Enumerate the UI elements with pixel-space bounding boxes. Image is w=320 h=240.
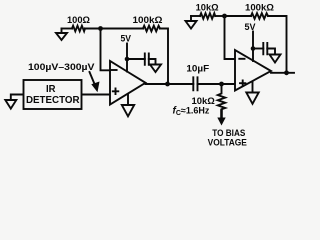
ground G4 (left of stage-2 10kΩ) (186, 16, 197, 29)
IR detector block (24, 80, 82, 109)
node (U2 output / feedback junction) (284, 70, 289, 75)
svg-text:DETECTOR: DETECTOR (26, 95, 80, 106)
ground (C1 decoupling) (150, 65, 161, 73)
op-amp U2 (235, 50, 271, 91)
node (high-pass junction) (219, 82, 224, 87)
svg-text:VOLTAGE: VOLTAGE (208, 138, 247, 148)
resistor 100Ω (stage 1 input) (72, 26, 85, 32)
svg-text:10kΩ: 10kΩ (192, 96, 215, 106)
capacitor 10µF (coupling) (193, 77, 197, 90)
wire (IR detector output to U1 + input) (82, 94, 110, 96)
svg-text:100Ω: 100Ω (67, 15, 90, 25)
resistor 10kΩ (high-pass, vertical) (218, 84, 225, 111)
svg-text:100kΩ: 100kΩ (245, 2, 274, 12)
wire (G1 to resistor 100Ω) (62, 28, 73, 30)
svg-text:10µF: 10µF (186, 63, 209, 73)
svg-text:100kΩ: 100kΩ (133, 15, 163, 25)
ground (C2 decoupling) (270, 55, 281, 63)
wire (G4 to 10kΩ) (191, 15, 200, 17)
wire (10kΩ to node B) (215, 15, 224, 17)
arrow to bias voltage (217, 111, 225, 126)
wire (junction to decoupling cap C1) (127, 58, 145, 60)
wire (C2 to ground) (267, 49, 275, 55)
node (5V decoupling junction U1) (125, 57, 130, 62)
svg-text:10kΩ: 10kΩ (196, 2, 219, 12)
wire (node B to 100kΩ) (225, 15, 252, 17)
label TO BIAS VOLTAGE (208, 128, 247, 148)
svg-text:fC≈1.6Hz: fC≈1.6Hz (173, 106, 210, 118)
svg-text:TO BIAS: TO BIAS (212, 128, 245, 138)
wire (100kΩ to feedback corner, down to U2 output node) (268, 16, 287, 73)
wire (node A down to inverting input of U1) (101, 29, 110, 71)
wire (100Ω to node A) (85, 28, 101, 30)
svg-text:IR: IR (46, 84, 56, 95)
svg-text:5V: 5V (245, 22, 256, 32)
wire (5V to U1 V+ pin) (126, 44, 128, 72)
wire (node B down to inverting input of U2) (225, 16, 235, 59)
capacitor C1 (decoupling, U1) (145, 54, 149, 65)
node B (stage 2 summing junction) (222, 14, 227, 19)
resistor 100kΩ (stage 1 feedback) (143, 26, 160, 32)
wire (100kΩ to feedback corner, down to output node) (160, 29, 168, 85)
resistor 10kΩ (stage 2 input) (200, 13, 215, 19)
wire (10µF to U2 + input) (198, 83, 235, 85)
resistor 100kΩ (stage 2 feedback) (251, 13, 268, 19)
wire (node A to 100kΩ) (101, 28, 144, 30)
node A (summing junction, top-left) (98, 26, 103, 31)
node (U1 output / feedback junction) (165, 82, 170, 87)
wire (U1 output) (146, 83, 194, 85)
wire (IR detector to ground G3) (11, 95, 23, 101)
ground G3 (IR detector) (5, 100, 16, 109)
wire (5V to U2 V+ pin) (252, 32, 254, 62)
wire (U2 output) (271, 72, 294, 74)
node (5V decoupling junction U2) (251, 46, 256, 51)
annotation arrow (label to + input wire) (90, 72, 100, 92)
svg-text:100µV–300µV: 100µV–300µV (28, 62, 95, 72)
capacitor C2 (decoupling, U2) (263, 43, 267, 54)
op-amp U1 (110, 61, 146, 105)
ground (U1 V- pin) (122, 94, 134, 116)
ground (U2 V- pin) (246, 82, 258, 104)
svg-text:5V: 5V (121, 34, 132, 44)
wire (C1 to ground) (149, 59, 156, 65)
ground G1 (left of 100Ω) (56, 29, 67, 41)
wire (junction to decoupling cap C2) (253, 48, 263, 50)
